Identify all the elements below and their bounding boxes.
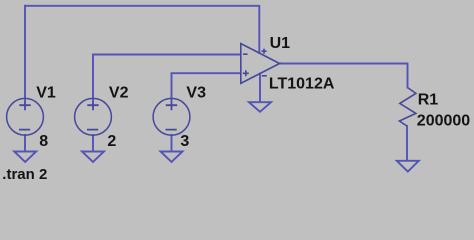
svg-text:V3: V3 <box>186 85 206 102</box>
svg-text:2: 2 <box>107 133 116 150</box>
svg-text:.tran 2: .tran 2 <box>2 166 47 183</box>
svg-text:V2: V2 <box>109 85 129 102</box>
svg-text:U1: U1 <box>270 35 291 52</box>
svg-text:V1: V1 <box>36 85 56 102</box>
svg-text:8: 8 <box>39 133 48 150</box>
svg-text:3: 3 <box>180 133 189 150</box>
svg-text:LT1012A: LT1012A <box>269 75 335 92</box>
svg-text:R1: R1 <box>418 92 439 109</box>
svg-text:200000: 200000 <box>417 113 470 130</box>
